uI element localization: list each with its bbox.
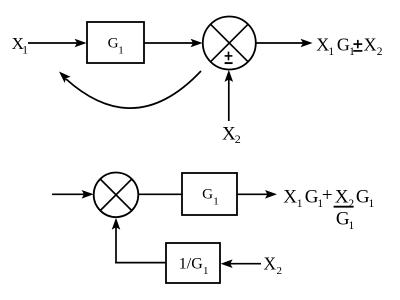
svg-text:2: 2: [377, 46, 383, 58]
svg-text:X: X: [283, 186, 297, 207]
summing junction U1 (circle with X cross): [203, 17, 256, 70]
node: output label X1 G1 + (X2/G1) G1 (bottom): [283, 185, 374, 232]
svg-text:2: 2: [277, 265, 283, 277]
svg-text:1: 1: [118, 45, 124, 57]
wire: summing junction U2 to block G1 (bottom): [138, 193, 182, 195]
node X2 (top, below summing junction): [222, 123, 241, 146]
svg-text:1: 1: [22, 45, 28, 57]
wire: X1 input to block G1 with arrowhead: [28, 39, 87, 48]
block G1 (bottom): [182, 173, 237, 215]
svg-text:1: 1: [328, 46, 334, 58]
wire: summing junction to output text with arrowhead: [256, 39, 313, 48]
svg-text:1: 1: [349, 46, 355, 58]
svg-text:1: 1: [203, 265, 209, 277]
node X1 (top input label): [12, 34, 29, 57]
wire: curved feedback arrow (summing junction back toward X1): [59, 71, 201, 108]
wire: block G1 to summing junction with arrowhead: [144, 39, 203, 48]
wire: X2 up into summing junction with arrowhead: [225, 70, 234, 121]
wire: block G1 to bottom output with arrowhead: [237, 190, 277, 199]
svg-text:X: X: [364, 34, 377, 54]
svg-text:1: 1: [213, 195, 219, 207]
wire: X2 into block 1/G1 with arrowhead: [221, 259, 261, 268]
summing junction U2 (circle with X cross, bottom): [94, 173, 139, 218]
svg-text:1: 1: [369, 198, 375, 210]
svg-text:X: X: [264, 253, 277, 273]
wire: bottom input to summing junction with arrowhead: [52, 190, 94, 199]
svg-text:X: X: [316, 34, 329, 54]
svg-text:1: 1: [297, 198, 303, 210]
node: output label X1 G1 +/- X2 (top): [316, 34, 383, 58]
minus sign inside summing junction: [225, 62, 233, 64]
svg-text:G: G: [202, 185, 213, 202]
plus sign inside summing junction: [225, 52, 233, 61]
svg-text:1: 1: [349, 220, 355, 232]
svg-text:X: X: [335, 186, 349, 207]
svg-text:G: G: [337, 34, 350, 54]
svg-text:1/G: 1/G: [179, 256, 203, 273]
svg-text:2: 2: [235, 132, 241, 146]
svg-text:G: G: [108, 35, 119, 52]
node X2 (bottom input label): [264, 253, 283, 277]
block 1/G1 (bottom feedback): [166, 243, 220, 283]
wire: block 1/G1 left to corner then up into summing junction U2 with arrowhead: [112, 218, 166, 264]
svg-text:+: +: [322, 185, 333, 206]
block G1 (top): [87, 22, 144, 63]
